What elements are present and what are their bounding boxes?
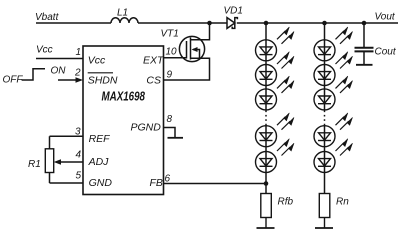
svg-text:SHDN: SHDN [88, 74, 118, 86]
svg-text:R1: R1 [28, 159, 41, 170]
svg-text:CS: CS [146, 74, 161, 86]
svg-text:L1: L1 [117, 8, 128, 19]
svg-text:Vout: Vout [375, 12, 396, 23]
svg-text:ADJ: ADJ [88, 156, 110, 168]
svg-text:ON: ON [51, 66, 67, 77]
svg-text:PGND: PGND [131, 122, 162, 134]
svg-text:6: 6 [165, 174, 171, 185]
svg-text:5: 5 [76, 171, 82, 182]
svg-text:Rn: Rn [336, 197, 349, 208]
svg-text:VD1: VD1 [224, 6, 243, 17]
svg-text:Vbatt: Vbatt [35, 12, 60, 23]
svg-text:OFF: OFF [3, 75, 24, 86]
svg-text:8: 8 [167, 114, 173, 125]
svg-text:Rfb: Rfb [278, 197, 294, 208]
svg-text:REF: REF [89, 133, 111, 145]
svg-text:MAX1698: MAX1698 [102, 90, 146, 104]
svg-text:Vcc: Vcc [36, 45, 53, 56]
svg-text:3: 3 [75, 127, 81, 138]
svg-text:VT1: VT1 [161, 29, 179, 40]
svg-text:9: 9 [167, 70, 173, 81]
svg-text:EXT: EXT [143, 55, 165, 67]
svg-text:Vcc: Vcc [88, 55, 106, 67]
svg-text:Cout: Cout [375, 47, 397, 58]
svg-text:GND: GND [89, 177, 113, 189]
svg-text:2: 2 [74, 68, 81, 79]
svg-text:1: 1 [76, 47, 82, 58]
svg-text:4: 4 [76, 150, 82, 161]
svg-text:10: 10 [166, 47, 178, 58]
svg-text:FB: FB [150, 177, 163, 189]
